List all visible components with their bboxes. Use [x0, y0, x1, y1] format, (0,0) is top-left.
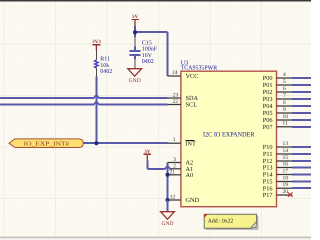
svg-text:16: 16: [283, 161, 289, 167]
U3 pin 6 P02: [263, 86, 293, 96]
svg-text:19: 19: [283, 182, 289, 188]
U3 pin 15 P12: [263, 155, 293, 165]
port IO_EXP_INT#: [9, 139, 83, 148]
junction 5V/C15/VCC: [133, 30, 137, 34]
svg-text:11: 11: [283, 121, 289, 127]
svg-text:2: 2: [173, 163, 176, 169]
svg-text:23: 23: [173, 93, 179, 99]
svg-text:14: 14: [283, 148, 289, 154]
resistor R11: [95, 50, 99, 77]
svg-text:P14: P14: [263, 172, 274, 179]
wire net P04: [292, 105, 311, 107]
U3 pin 5 P01: [263, 79, 293, 89]
svg-text:C15: C15: [142, 40, 152, 46]
wire hop A1 over address tie: [164, 166, 170, 170]
U3 pin 20 P17: [263, 189, 293, 199]
svg-text:18: 18: [283, 175, 289, 181]
svg-text:3: 3: [173, 157, 176, 163]
svg-text:P01: P01: [263, 82, 273, 89]
wire net P13: [292, 167, 311, 169]
wire net P03: [292, 98, 311, 100]
svg-text:P05: P05: [263, 110, 273, 117]
U3 pin 23 SDA: [168, 93, 199, 103]
svg-text:8: 8: [283, 100, 286, 106]
value labels R11 10k 0402: [100, 57, 112, 75]
wire net P00: [292, 77, 311, 79]
svg-text:0402: 0402: [142, 59, 154, 65]
power port 5V (at A1): [144, 149, 151, 161]
svg-text:SCL: SCL: [186, 102, 198, 109]
svg-text:A0: A0: [186, 172, 194, 179]
svg-text:P02: P02: [263, 89, 273, 96]
svg-text:12: 12: [170, 194, 176, 200]
svg-text:21: 21: [169, 169, 175, 175]
svg-text:17: 17: [283, 168, 289, 174]
svg-text:P17: P17: [263, 192, 273, 199]
wire 5V to A1 horizontal: [147, 168, 164, 170]
U3 pin 7 P03: [263, 93, 293, 103]
svg-text:P11: P11: [263, 151, 273, 158]
wire net P07: [292, 126, 311, 128]
junction A0 tie: [166, 173, 170, 177]
svg-text:GND: GND: [129, 78, 141, 84]
svg-text:5V: 5V: [132, 14, 139, 20]
wire VCC vertical drop to pin 24: [167, 32, 169, 76]
wire 5V to VCC horizontal: [135, 31, 168, 33]
svg-text:3V3: 3V3: [92, 39, 101, 45]
svg-text:IO_EXP_INT#: IO_EXP_INT#: [24, 142, 70, 148]
svg-text:P03: P03: [263, 96, 273, 103]
no-connect X on pin 20 P17: [288, 192, 293, 197]
wire net SDA (left segment): [0, 97, 94, 99]
wire net P06: [292, 119, 311, 121]
wire 5V to A1 vertical: [146, 161, 148, 169]
wire net IO_EXP_INT# to pin 1: [83, 142, 167, 144]
power port 5V (top): [131, 14, 139, 26]
U3 pin 8 P04: [263, 100, 293, 110]
wire net P01: [292, 84, 311, 86]
U3 pin 17 P14: [263, 168, 293, 178]
U3 pin 18 P15: [263, 175, 293, 185]
svg-text:24: 24: [172, 70, 178, 76]
svg-text:1: 1: [173, 137, 176, 143]
svg-text:I2C IO EXPANDER: I2C IO EXPANDER: [203, 131, 255, 138]
svg-text:Add : 0x22: Add : 0x22: [208, 219, 234, 225]
U3 pin 13 P10: [263, 141, 293, 151]
svg-text:7: 7: [283, 93, 286, 99]
wire net P15: [292, 181, 311, 183]
svg-text:GND: GND: [161, 221, 173, 227]
U3 pin 24 VCC: [168, 70, 199, 80]
svg-text:4: 4: [283, 72, 286, 78]
IC U3 TCA9535PWR body: [181, 71, 277, 207]
U3 pin 3 A2: [168, 157, 194, 167]
wire net P02: [292, 91, 311, 93]
svg-text:5: 5: [283, 79, 286, 85]
svg-text:100nF: 100nF: [142, 47, 158, 53]
wire net P11: [292, 153, 311, 155]
wire net SCL (right segment to pin 22): [99, 104, 167, 106]
wire net P10: [292, 146, 311, 148]
junction GND pin tie: [166, 198, 170, 202]
wire net SDA (right segment to pin 23): [99, 97, 167, 99]
U3 pin 9 P05: [263, 107, 293, 117]
capacitor C15: [129, 37, 140, 69]
svg-text:P04: P04: [263, 103, 274, 110]
svg-text:P13: P13: [263, 165, 273, 172]
svg-text:22: 22: [173, 99, 179, 105]
svg-text:0402: 0402: [100, 69, 112, 75]
ground symbol below pin 12: [161, 212, 175, 227]
wire A1 stub tail: [170, 168, 172, 170]
svg-text:15: 15: [283, 155, 289, 161]
svg-text:TCA9535PWR: TCA9535PWR: [181, 64, 218, 71]
svg-text:R11: R11: [100, 57, 110, 63]
U3 pin 1 INT: [168, 137, 196, 148]
svg-text:10: 10: [283, 114, 289, 120]
wire net P16: [292, 187, 311, 189]
wire hop SDA over R11 line: [93, 95, 99, 99]
wire 5V vertical to C15: [134, 26, 136, 38]
wire tie down to ground: [167, 200, 169, 212]
U3 pin 19 P16: [263, 182, 293, 192]
svg-text:P10: P10: [263, 144, 273, 151]
svg-text:10k: 10k: [100, 62, 109, 69]
U3 pin 10 P06: [263, 114, 293, 124]
svg-text:13: 13: [283, 141, 289, 147]
wire R11 down to INT net: [95, 77, 97, 144]
svg-text:6: 6: [283, 86, 286, 92]
svg-text:GND: GND: [186, 197, 200, 204]
svg-text:16V: 16V: [142, 53, 153, 59]
svg-text:INT: INT: [185, 141, 196, 148]
U3 pin 16 P13: [263, 161, 293, 171]
power port 3V3: [92, 39, 101, 50]
U3 pin 14 P11: [263, 148, 292, 158]
value labels C15 100nF 16V 0402: [142, 40, 158, 65]
U3 pin 21 A0: [168, 169, 194, 179]
svg-text:9: 9: [283, 107, 286, 113]
svg-text:20: 20: [283, 189, 289, 195]
ground symbol below C15: [128, 69, 142, 84]
wire net P12: [292, 160, 311, 162]
U3 pin 12 GND: [168, 194, 200, 204]
wire net P05: [292, 112, 311, 114]
svg-text:VCC: VCC: [186, 73, 199, 80]
wire net P14: [292, 174, 311, 176]
wire hop SCL over R11 line: [93, 101, 99, 105]
wire A2/A0 address tie vertical: [167, 163, 169, 201]
junction R11/INT: [94, 141, 98, 145]
svg-text:P00: P00: [263, 75, 273, 82]
svg-text:5V: 5V: [144, 149, 151, 155]
svg-text:P07: P07: [263, 124, 273, 131]
U3 pin 4 P00: [263, 72, 293, 82]
U3 pin 11 P07: [263, 121, 293, 131]
U3 pin 22 SCL: [168, 99, 198, 109]
U3 pin 2 A1: [172, 163, 194, 173]
wire net SCL (left segment): [0, 104, 94, 106]
note Add : 0x22: [204, 214, 258, 230]
